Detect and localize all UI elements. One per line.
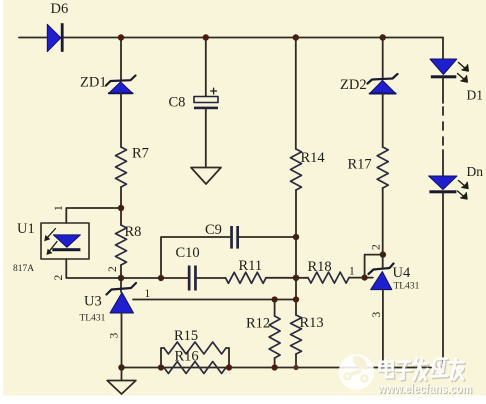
wire C10 to R11	[197, 277, 226, 279]
svg-text:R15: R15	[174, 328, 198, 344]
node ref row / R12 top	[272, 296, 278, 302]
node R8/U1pin2/U3 junction	[118, 275, 124, 281]
optocoupler U1 box	[41, 223, 89, 259]
ground below U3	[107, 381, 136, 395]
wire C9 right to R14 column	[239, 236, 296, 238]
wire R13 top stub	[295, 300, 297, 316]
diode D6	[47, 23, 63, 52]
wire C8 column upper	[205, 38, 207, 97]
resistor R18	[308, 272, 349, 283]
svg-text:ZD1: ZD1	[80, 75, 107, 91]
wire R7 to node	[120, 187, 122, 225]
svg-text:2: 2	[107, 266, 119, 272]
svg-text:R12: R12	[246, 316, 270, 332]
svg-text:1: 1	[53, 205, 65, 211]
svg-text:1: 1	[145, 288, 151, 300]
node top rail / R14 column	[293, 34, 299, 40]
wire ZD1 to R7	[120, 93, 122, 147]
node R15/R16 left	[158, 364, 164, 370]
U1 light arrows	[44, 229, 57, 255]
wire C9 branch vertical	[161, 237, 230, 278]
node C9 branch	[158, 275, 164, 281]
dashed wire LED string	[442, 107, 444, 148]
svg-text:www.elecfans.com: www.elecfans.com	[377, 381, 472, 396]
node R11/R18/R14 column	[293, 275, 299, 281]
Dn emission arrows	[458, 181, 469, 200]
wire R17 to U4 cathode	[382, 188, 384, 268]
capacitor C10	[188, 266, 197, 291]
shunt regulator U4 TL431	[369, 264, 394, 290]
watermark logo circle	[339, 354, 375, 390]
wire R11 to node	[266, 277, 308, 279]
svg-text:ZD2: ZD2	[340, 77, 367, 93]
svg-text:3: 3	[371, 312, 383, 318]
node C9 / R14 column	[293, 234, 299, 240]
node R15/R16 right	[226, 364, 232, 370]
resistor R16	[164, 362, 226, 374]
zener ZD1	[106, 76, 136, 94]
D1 emission arrows	[458, 63, 469, 83]
node R13 bottom	[293, 365, 298, 370]
wire R12 bottom stub	[274, 358, 276, 368]
wire R14 column lower	[295, 190, 297, 300]
resistor R8	[116, 225, 127, 265]
svg-text:U4: U4	[393, 265, 411, 281]
U1 LED	[52, 235, 80, 251]
wire node to U3 cathode	[120, 278, 122, 292]
wire U4 ref to cathode loop	[365, 255, 383, 278]
svg-text:R17: R17	[348, 157, 372, 173]
wire R13 bottom stub	[295, 354, 297, 368]
ground below C8	[191, 168, 221, 185]
wire to ground	[121, 368, 123, 381]
wire R12 top stub	[274, 300, 276, 317]
watermark chinese text shadow	[381, 360, 465, 381]
node R7/R8/U1pin1 junction	[118, 205, 124, 211]
svg-text:C9: C9	[205, 222, 222, 238]
capacitor C8	[194, 88, 218, 109]
wire R8 to node	[120, 265, 122, 278]
wire U4 anode down	[382, 290, 384, 368]
wire ZD1 column	[120, 38, 122, 82]
resistor R11	[226, 272, 267, 283]
watermark chinese text 电子发烧友	[380, 359, 464, 380]
wire D1 cathode	[442, 78, 444, 103]
svg-text:1: 1	[349, 265, 355, 277]
node top rail / C8	[203, 34, 209, 40]
svg-text:R7: R7	[132, 146, 149, 162]
resistor R12	[269, 316, 280, 358]
node ref row / R13 top	[293, 296, 299, 302]
node U4 cathode loop	[380, 251, 386, 257]
resistor R15	[164, 342, 226, 354]
LED D1	[430, 59, 457, 78]
svg-text:3: 3	[109, 333, 121, 339]
R15 R16 parallel brackets	[161, 348, 164, 368]
wire right LED column upper	[442, 38, 444, 59]
wire U1 pin 1	[66, 208, 121, 223]
svg-text:C8: C8	[169, 95, 186, 111]
wire R18 to U4 ref	[349, 277, 373, 279]
page edge white strips	[0, 396, 486, 404]
svg-text:R14: R14	[301, 150, 326, 166]
node top rail / ZD2 column	[380, 34, 386, 40]
wire U3 anode down	[121, 313, 123, 368]
bottom rail wire	[122, 367, 444, 369]
wire U3 ref pin 1	[133, 299, 296, 301]
wire Dn anode	[442, 150, 444, 176]
node top rail / ZD1 column	[118, 34, 124, 40]
wire top rail	[19, 37, 443, 39]
svg-text:C10: C10	[176, 245, 200, 261]
wire ZD2 to R17	[382, 94, 384, 148]
wire ZD2 column upper	[382, 38, 384, 80]
svg-text:2: 2	[371, 244, 383, 250]
svg-text:TL431: TL431	[394, 281, 420, 291]
resistor R17	[377, 147, 388, 188]
wire Dn cathode to bottom rail	[442, 193, 444, 368]
wire R14 column upper	[295, 38, 297, 150]
svg-text:R13: R13	[300, 315, 324, 331]
resistor R14	[291, 149, 302, 190]
svg-text:D1: D1	[467, 88, 484, 103]
svg-text:2: 2	[53, 275, 65, 281]
node U4 ref junction	[362, 275, 368, 281]
wire U1 pin 2	[66, 259, 121, 278]
resistor R13	[291, 315, 302, 354]
svg-text:Dn: Dn	[467, 164, 484, 179]
wire node row y278 left segment	[121, 277, 188, 279]
node bottom rail / U3 ground	[118, 364, 124, 370]
svg-text:R18: R18	[308, 259, 332, 275]
svg-text:U1: U1	[17, 221, 35, 237]
svg-text:R8: R8	[125, 224, 142, 240]
svg-text:D6: D6	[51, 1, 69, 17]
node R12 bottom	[272, 364, 278, 370]
svg-text:U3: U3	[84, 294, 102, 310]
shunt regulator U3 TL431	[107, 283, 137, 313]
svg-text:TL431: TL431	[80, 314, 106, 324]
LED Dn	[429, 176, 457, 193]
svg-text:R16: R16	[175, 348, 199, 364]
svg-text:R11: R11	[239, 258, 263, 274]
capacitor C9	[230, 226, 239, 249]
wire C8 to ground	[205, 109, 207, 167]
resistor R7	[116, 147, 127, 187]
zener ZD2	[368, 74, 398, 94]
svg-text:817A: 817A	[13, 264, 34, 274]
